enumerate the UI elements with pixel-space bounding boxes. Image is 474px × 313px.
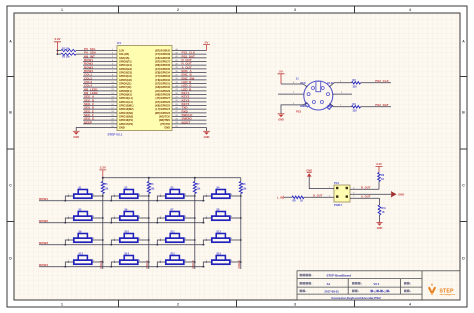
svg-text:2: 2 <box>177 8 179 12</box>
svg-text:5V: 5V <box>205 40 209 44</box>
title row4: description <box>331 296 381 300</box>
IC U1 pin 7 wire (left row 7) <box>83 69 132 75</box>
svg-text:(D7)/GPIO37: (D7)/GPIO37 <box>155 60 170 64</box>
net label A_OUT <box>361 195 371 199</box>
svg-text:1K: 1K <box>381 178 384 181</box>
switch S2 (tact button) <box>110 187 149 202</box>
IC U1 pin 19 wire (left row 19) <box>83 113 133 119</box>
IC U1 pin 14 wire (left row 14) <box>83 95 133 101</box>
wire row ROW2 horizontal <box>39 222 205 224</box>
IC U1 pin 15 wire (left row 15) <box>83 98 133 104</box>
switch S10 (tact button) <box>110 231 149 246</box>
wire IC right GND pin to ground <box>206 128 208 132</box>
IC U1 pin 25 wire (right row 20) <box>159 117 207 123</box>
IC U1 pin 5 wire (left row 5) <box>83 62 132 68</box>
resistor R6 10k column pullup <box>147 178 155 194</box>
svg-text:BOOT: BOOT <box>182 120 191 124</box>
svg-text:A_OUT: A_OUT <box>361 195 371 199</box>
ground symbol (PS/2) <box>278 114 285 122</box>
power 5V flag (PS/2) <box>278 70 285 84</box>
net label COL4 <box>237 260 241 268</box>
svg-text:(F7)/GPIO33: (F7)/GPIO33 <box>155 74 170 78</box>
svg-text:10k: 10k <box>242 188 247 191</box>
IC U1 pin 9 wire (left row 9) <box>83 76 132 82</box>
svg-text:330: 330 <box>353 110 358 113</box>
net label ROW3 <box>39 241 48 245</box>
svg-text:www.stepfpga.com: www.stepfpga.com <box>440 293 456 296</box>
svg-text:(L7)/GPIO24: (L7)/GPIO24 <box>155 107 170 111</box>
wire opto pin1 to GND <box>309 176 327 188</box>
svg-text:(N7)/TCK: (N7)/TCK <box>159 115 170 119</box>
switch S12 (tact button) <box>202 231 241 246</box>
svg-text:GPIO3(G3): GPIO3(G3) <box>119 71 132 75</box>
IC U1 pin 36 wire (right row 9) <box>155 76 206 82</box>
svg-text:GPIO9(K2): GPIO9(K2) <box>119 93 132 97</box>
svg-text:PS2_CLK: PS2_CLK <box>375 79 389 83</box>
net label PS2_DAT <box>375 103 388 107</box>
svg-text:GPIO7(J2): GPIO7(J2) <box>119 85 131 89</box>
svg-text:10k: 10k <box>150 188 155 191</box>
IC U1 pin 33 wire (right row 12) <box>155 87 206 93</box>
svg-text:A4: A4 <box>327 282 331 286</box>
switch S16 (tact button) <box>202 253 241 268</box>
IC U1 pin 29 wire (right row 16) <box>155 102 206 108</box>
svg-text:DAT: DAT <box>327 104 333 108</box>
IC U1 pin 18 wire (left row 18) <box>83 109 133 115</box>
wire PS/2 pin 6 <box>333 92 352 94</box>
title row3: date / page / author <box>300 289 411 293</box>
wire column COL4 vertical <box>240 194 242 270</box>
svg-text:3.3V: 3.3V <box>376 162 382 166</box>
wire IC left GND pin to ground <box>76 128 83 132</box>
IC U1 pin 2 wire (left row 2) <box>83 51 129 57</box>
ground symbol (IC right) <box>203 131 210 139</box>
power 3.3V flag (keypad) <box>99 165 106 177</box>
IC U1 pin 44 wire (right row 1) <box>155 48 206 53</box>
wire PS/2 GND pin 3 <box>281 103 307 114</box>
svg-text:GPIO11(L2): GPIO11(L2) <box>119 100 133 104</box>
IC U1 pin 37 wire (right row 8) <box>155 73 206 79</box>
net label PS2_CLK <box>375 79 389 83</box>
IC U1 pin 42 wire (right row 3) <box>155 54 206 60</box>
svg-text:GPIO12(M1): GPIO12(M1) <box>119 104 134 108</box>
svg-text:S13: S13 <box>78 253 83 256</box>
switch S13 (tact button) <box>64 253 103 268</box>
IC U1 pin 22 wire (left row 22) <box>83 126 125 130</box>
switch S3 (tact button) <box>156 187 195 202</box>
IC U1 pin 38 wire (right row 7) <box>155 69 206 75</box>
junction dots on 3.3V stem <box>57 50 59 55</box>
svg-text:ROW4: ROW4 <box>39 263 48 267</box>
wire jack bottom pin to R11 <box>357 197 380 199</box>
power 3.3V flag (IC left pullups) <box>54 37 61 54</box>
connector PS2 name label <box>296 109 302 113</box>
svg-text:D_OUT: D_OUT <box>313 194 323 198</box>
IC U1 pin 24 wire (right row 21) <box>160 120 206 126</box>
resistor R9 1K vertical <box>378 172 385 189</box>
svg-text:GPIO15(N2): GPIO15(N2) <box>119 115 133 119</box>
net label COL3 <box>191 260 195 268</box>
svg-text:PC1: PC1 <box>334 181 340 185</box>
wire row ROW1 horizontal <box>39 200 205 202</box>
opto pin stubs and numbers <box>327 186 357 198</box>
svg-text:Connector,Keyboard,Encoder,PS/: Connector,Keyboard,Encoder,PS/2 <box>331 296 381 300</box>
switch S14 (tact button) <box>110 253 149 268</box>
svg-text:2: 2 <box>177 302 179 306</box>
svg-text:1: 1 <box>61 8 63 12</box>
net label R_OUT <box>361 186 371 190</box>
IC U1 designator <box>117 41 121 45</box>
switch S5 (tact button) <box>64 209 103 224</box>
svg-text:1: 1 <box>61 302 63 306</box>
svg-text:(C8)/GPIO38: (C8)/GPIO38 <box>155 56 170 60</box>
svg-text:GPIO14(N1): GPIO14(N1) <box>119 111 133 115</box>
svg-text:10k: 10k <box>196 188 201 191</box>
wire PS/2 CLK pin 5 with resistor R3 330 <box>329 79 391 88</box>
svg-text:S11: S11 <box>170 231 175 234</box>
wire PS/2 VCC pin 4 <box>281 81 307 87</box>
svg-text:330: 330 <box>353 86 358 89</box>
svg-text:S16: S16 <box>216 253 221 256</box>
IC U1 comment STEP V2.1 <box>108 133 123 137</box>
svg-text:GND: GND <box>164 126 170 130</box>
wire column COL2 vertical <box>148 194 150 270</box>
svg-text:1K: 1K <box>382 211 385 214</box>
svg-text:10k: 10k <box>104 188 109 191</box>
svg-text:GND: GND <box>377 227 383 230</box>
connector J1 designator <box>296 77 299 81</box>
svg-text:(G8)/GPIO30: (G8)/GPIO30 <box>155 85 171 89</box>
svg-text:R1 10k: R1 10k <box>62 47 70 50</box>
svg-text:R11: R11 <box>382 207 387 210</box>
wire opto pin4 R_OUT <box>357 188 379 190</box>
svg-text:S10: S10 <box>124 231 129 234</box>
power port GND arrow (right) <box>391 191 404 197</box>
resistor R1 10k pullup <box>57 47 83 51</box>
IC U1 pin 40 wire (right row 5) <box>155 62 206 68</box>
net label COL1 <box>99 260 103 268</box>
switch S4 (tact button) <box>202 187 241 202</box>
svg-text:(H7)/GPIO29: (H7)/GPIO29 <box>155 89 170 93</box>
svg-text:GPIO2(G2): GPIO2(G2) <box>119 67 132 71</box>
svg-text:3.3V: 3.3V <box>119 49 125 53</box>
resistor R2 10k pullup <box>57 53 83 58</box>
svg-text:GPIO0(F1): GPIO0(F1) <box>119 60 132 64</box>
IC U1 pin 27 wire (right row 18) <box>155 109 207 115</box>
IC U1 pin 30 wire (right row 15) <box>155 98 206 104</box>
wire column COL3 vertical <box>194 194 196 270</box>
ground symbol (below R11) <box>376 223 382 230</box>
IC U1 pin 1 wire (left row 1) <box>83 47 125 53</box>
net label ROW2 <box>39 219 48 223</box>
IC U1 pin 41 wire (right row 4) <box>155 58 206 64</box>
svg-text:V2.1: V2.1 <box>374 282 380 286</box>
svg-text:4: 4 <box>409 8 411 12</box>
switch S8 (tact button) <box>202 209 241 224</box>
svg-text:R2 10k: R2 10k <box>62 56 70 59</box>
svg-text:S12: S12 <box>216 231 221 234</box>
IC U1 pin 43 wire (right row 2) <box>155 51 206 57</box>
svg-text:PS2: PS2 <box>296 109 302 113</box>
switch S6 (tact button) <box>110 209 149 224</box>
net label ROW1 <box>39 197 48 201</box>
switch S1 (tact button) <box>64 187 103 202</box>
svg-text:GPIO4(H1): GPIO4(H1) <box>119 74 132 78</box>
IC U1 pin 32 wire (right row 13) <box>155 91 206 97</box>
PS/2 top slot <box>316 81 321 91</box>
svg-text:R_OUT: R_OUT <box>361 186 371 190</box>
svg-text:GPIO16(P1): GPIO16(P1) <box>119 118 133 122</box>
wire row ROW4 horizontal <box>39 266 205 268</box>
svg-text:(K7)/GPIO26: (K7)/GPIO26 <box>155 100 170 104</box>
switch S9 (tact button) <box>64 231 103 246</box>
svg-text:(M7)/GPIO23: (M7)/GPIO23 <box>155 111 171 115</box>
svg-text:3.3V: 3.3V <box>100 165 106 169</box>
svg-text:GPIO1(G1): GPIO1(G1) <box>119 63 132 67</box>
ground symbol (IC left) <box>73 131 80 139</box>
svg-text:STEP V2.1: STEP V2.1 <box>108 133 123 137</box>
svg-text:GND: GND <box>73 135 79 139</box>
svg-text:2017-08-01: 2017-08-01 <box>325 289 340 293</box>
svg-text:BEEP: BEEP <box>84 120 92 124</box>
IC U1 pin 20 wire (left row 20) <box>83 117 133 123</box>
net label COL2 <box>145 260 149 268</box>
op IC U1 body <box>117 46 172 131</box>
wire keypad 3.3V rail <box>103 177 241 179</box>
svg-text:1K: 1K <box>300 200 303 203</box>
svg-text:(K8)/GPIO25: (K8)/GPIO25 <box>155 104 170 108</box>
svg-text:J1: J1 <box>296 77 299 81</box>
IC U1 pin 6 wire (left row 6) <box>83 65 132 71</box>
optocoupler PC1 body <box>334 185 350 202</box>
IC U1 pin 34 wire (right row 11) <box>155 84 207 90</box>
switch S11 (tact button) <box>156 231 195 246</box>
resistor R7 10k column pullup <box>193 178 201 194</box>
IC U1 pin 35 wire (right row 10) <box>155 80 207 86</box>
IC U1 pin 31 wire (right row 14) <box>156 95 207 101</box>
title row1: project name <box>300 274 352 278</box>
IC U1 pin 12 wire (left row 12) <box>83 87 132 93</box>
svg-text:ROW2: ROW2 <box>39 219 48 223</box>
ground symbol (opto, pointing up) <box>306 168 312 176</box>
svg-text:GND: GND <box>119 126 125 130</box>
svg-text:GPIO10(L1): GPIO10(L1) <box>119 96 133 100</box>
IC U1 pin 4 wire (left row 4) <box>83 58 132 64</box>
STEP logo text <box>439 288 455 296</box>
svg-text:GPIO8(K1): GPIO8(K1) <box>119 89 132 93</box>
connector J1 PS/2 mini-DIN circle <box>304 81 333 110</box>
svg-text:PC817: PC817 <box>334 203 342 207</box>
svg-text:GND: GND <box>398 192 404 196</box>
svg-text:SDA(1B): SDA(1B) <box>119 56 129 60</box>
svg-text:3.3V: 3.3V <box>54 37 60 41</box>
svg-text:(H8)/GPIO28: (H8)/GPIO28 <box>155 93 170 97</box>
title row2: sheet size / version / check <box>300 282 411 286</box>
resistor R8 10k column pullup <box>239 178 247 194</box>
svg-text:(B7)/5V/BUS: (B7)/5V/BUS <box>155 49 170 53</box>
PS/2 shield notches <box>305 103 332 110</box>
svg-text:GND: GND <box>278 117 284 121</box>
switch S7 (tact button) <box>156 209 195 224</box>
PS/2 inner labels <box>300 81 333 108</box>
IC U1 pin 17 wire (left row 17) <box>83 106 134 112</box>
IC U1 pin 3 wire (left row 3) <box>83 54 129 60</box>
net port L_IN <box>277 195 284 199</box>
svg-text:SCL(1B): SCL(1B) <box>119 52 129 56</box>
svg-text:GPIO5(H2): GPIO5(H2) <box>119 78 132 82</box>
svg-text:(E8)/GPIO34: (E8)/GPIO34 <box>155 71 170 75</box>
svg-text:S14: S14 <box>124 253 129 256</box>
svg-text:GPIO17(P2): GPIO17(P2) <box>119 122 133 126</box>
resistor R8 1K with wire to opto pin2 <box>284 196 327 203</box>
svg-text:(G7)/GPIO31: (G7)/GPIO31 <box>155 82 171 86</box>
wire PS/2 DAT pin 1 with resistor R4 330 <box>329 103 391 112</box>
svg-text:(F8)/GPIO32: (F8)/GPIO32 <box>155 78 170 82</box>
resistor R11 1K vertical <box>378 198 386 222</box>
power 3.3V flag (opto) <box>376 162 383 172</box>
PS/2 pin holes <box>307 87 329 104</box>
junction dots on rail <box>102 177 196 179</box>
svg-text:L_IN: L_IN <box>277 195 283 199</box>
switch S15 (tact button) <box>156 253 195 268</box>
svg-text:(P7)/TDI: (P7)/TDI <box>160 122 170 126</box>
net label D_OUT <box>313 194 323 198</box>
IC U1 pin 39 wire (right row 6) <box>155 65 206 71</box>
wire row ROW3 horizontal <box>39 244 205 246</box>
resistor R5 10k column pullup <box>101 178 109 194</box>
svg-text:4: 4 <box>409 302 411 306</box>
optocoupler PC1 designator <box>334 181 340 185</box>
svg-text:3: 3 <box>294 8 296 12</box>
wire column COL1 vertical <box>102 194 104 270</box>
svg-text:STEP BeadBoard: STEP BeadBoard <box>327 274 352 278</box>
IC U1 pin 8 wire (left row 8) <box>83 73 132 79</box>
svg-text:ROW1: ROW1 <box>39 197 48 201</box>
svg-text:GPIO6(J1): GPIO6(J1) <box>119 82 131 86</box>
IC U1 pin 11 wire (left row 11) <box>83 84 131 90</box>
svg-text:PS2_DAT: PS2_DAT <box>375 103 388 107</box>
svg-text:(E7)/GPIO35: (E7)/GPIO35 <box>155 67 170 71</box>
svg-text:GPIO13(M2): GPIO13(M2) <box>119 107 134 111</box>
IC U1 pin 23 wire (right row 22) <box>164 126 206 130</box>
svg-text:ROW3: ROW3 <box>39 241 48 245</box>
power 5V flag (IC right top) <box>203 40 210 50</box>
IC U1 pin 16 wire (left row 16) <box>83 102 134 108</box>
title block table <box>297 271 460 300</box>
svg-text:GND: GND <box>306 168 312 172</box>
IC U1 pin 21 wire (left row 21) <box>83 120 133 126</box>
svg-text:U1: U1 <box>117 41 121 45</box>
wire opto pin3 A_OUT <box>357 193 391 195</box>
STEP logo icon <box>429 287 435 293</box>
IC U1 pin 10 wire (left row 10) <box>83 80 131 86</box>
svg-text:(N8)/TMS: (N8)/TMS <box>159 118 170 122</box>
optocoupler PC817 value <box>334 203 342 207</box>
svg-text:(C7)/GPIO39: (C7)/GPIO39 <box>155 52 170 56</box>
svg-text:3: 3 <box>294 302 296 306</box>
IC U1 pin 26 wire (right row 19) <box>159 113 206 119</box>
svg-text:(J7)/GPIO27: (J7)/GPIO27 <box>156 96 171 100</box>
svg-text:S15: S15 <box>170 253 175 256</box>
IC U1 pin 28 wire (right row 17) <box>155 106 206 112</box>
svg-text:5V: 5V <box>279 70 283 74</box>
svg-text:GND: GND <box>204 135 210 139</box>
net label ROW4 <box>39 263 48 267</box>
svg-text:(D8)/GPIO36: (D8)/GPIO36 <box>155 63 170 67</box>
IC U1 pin 13 wire (left row 13) <box>83 91 132 97</box>
wire PS/2 pin 2 <box>278 92 304 94</box>
